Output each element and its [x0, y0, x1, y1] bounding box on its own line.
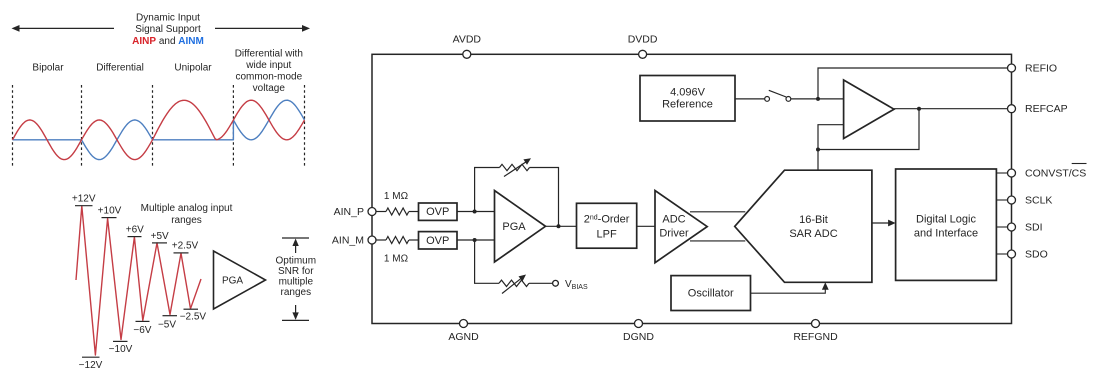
arrow left (dynamic input span): [12, 25, 115, 32]
svg-text:AVDD: AVDD: [453, 34, 482, 46]
label -5V: [158, 320, 176, 331]
label Digital Logic and Interface: [914, 214, 978, 240]
svg-text:Differential with: Differential with: [235, 49, 303, 60]
wire reference node to REFIO: [818, 68, 1008, 99]
junction dot PGA output: [557, 224, 561, 228]
tick -12V: [82, 356, 100, 358]
svg-text:DGND: DGND: [623, 331, 654, 343]
arrow right (dynamic input span): [215, 25, 310, 32]
pin SDI: [1008, 223, 1016, 231]
label 16-Bit SAR ADC: [789, 214, 837, 240]
terminal VBIAS: [553, 280, 559, 286]
block 2nd-Order LPF: [577, 203, 637, 248]
label Optimum SNR for multiple ranges: [276, 256, 317, 299]
switch lever: [769, 90, 786, 97]
svg-text:OVP: OVP: [426, 235, 449, 247]
junction dot AIN_P node: [473, 210, 477, 214]
block OVP (AIN_P): [419, 203, 458, 220]
svg-text:voltage: voltage: [253, 83, 286, 94]
pin AIN_M: [368, 236, 376, 244]
wire VBIAS down from AIN_M node: [475, 240, 499, 283]
svg-text:REFCAP: REFCAP: [1025, 103, 1068, 115]
wire to VBIAS terminal: [529, 282, 553, 284]
svg-text:multiple: multiple: [279, 277, 314, 288]
svg-text:+5V: +5V: [151, 231, 169, 242]
tick -6V: [136, 320, 150, 322]
block 16-Bit SAR ADC: [735, 170, 872, 282]
svg-text:2nd-Order: 2nd-Order: [584, 214, 630, 226]
wire AIN_M to resistor: [376, 239, 386, 241]
wire resistor to OVP (AIN_M): [409, 239, 419, 241]
wire buffer output to REFCAP: [894, 108, 1008, 110]
wire OVP to PGA (AIN_P): [457, 211, 495, 213]
wire feedback node to SAR ADC: [817, 150, 819, 171]
tick -10V: [113, 340, 128, 342]
waveform AINM (blue): [13, 100, 305, 159]
svg-text:−12V: −12V: [79, 360, 103, 371]
pin SDO: [1008, 250, 1016, 258]
label +10V: [98, 205, 122, 216]
label Unipolar: [174, 62, 212, 73]
svg-text:REFGND: REFGND: [793, 331, 838, 343]
pin DVDD: [639, 50, 647, 58]
svg-text:−2.5V: −2.5V: [180, 312, 207, 323]
junction dot feedback node: [816, 148, 820, 152]
wire reference to switch: [735, 98, 765, 100]
svg-text:OVP: OVP: [426, 206, 449, 218]
dashed divider 4: [232, 85, 234, 168]
pin AVDD: [463, 50, 471, 58]
wire digital logic to SCLK pin: [996, 199, 1007, 201]
arrowhead variable resistor VBIAS: [519, 275, 527, 282]
svg-text:Multiple analog input: Multiple analog input: [141, 203, 233, 214]
optimum SNR bottom bar: [282, 305, 309, 320]
block Oscillator: [671, 276, 751, 311]
arrowhead variable resistor PGA: [523, 158, 531, 165]
label VBIAS: [565, 279, 588, 291]
svg-text:DVDD: DVDD: [628, 34, 658, 46]
label REFGND: [793, 331, 838, 343]
dashed divider 3: [152, 85, 154, 168]
tick +6V: [128, 236, 142, 238]
svg-text:wide input: wide input: [245, 60, 291, 71]
op-amp reference buffer: [844, 80, 894, 139]
wire SAR ADC to digital logic: [872, 222, 890, 224]
block Digital Logic and Interface: [896, 169, 997, 280]
label 2nd-Order LPF: [584, 214, 630, 241]
wire AIN_P to resistor: [376, 211, 386, 213]
label PGA: [502, 221, 526, 233]
tick -5V: [163, 315, 178, 317]
label REFCAP: [1025, 103, 1068, 115]
wire feedback down to PGA output: [530, 168, 559, 227]
svg-text:+2.5V: +2.5V: [172, 241, 199, 252]
wire digital logic to SDI pin: [996, 226, 1007, 228]
label AIN_P: [334, 206, 364, 218]
wire oscillator to SAR ADC: [751, 288, 826, 294]
resistor 1 Mohm (AIN_P): [386, 208, 409, 215]
label DGND: [623, 331, 654, 343]
label Bipolar: [32, 62, 64, 73]
svg-text:SCLK: SCLK: [1025, 195, 1052, 207]
svg-text:Dynamic Input: Dynamic Input: [136, 12, 200, 23]
label +6V: [126, 224, 144, 235]
chip boundary box: [372, 54, 1012, 323]
label SDO: [1025, 249, 1048, 261]
svg-text:Reference: Reference: [662, 98, 713, 110]
svg-text:16-Bit: 16-Bit: [799, 214, 828, 226]
wire LPF to ADC driver: [637, 225, 655, 227]
pin REFIO: [1008, 64, 1016, 72]
label +2.5V: [172, 241, 199, 252]
tick +12V: [75, 205, 93, 207]
label -2.5V: [180, 312, 207, 323]
svg-text:ranges: ranges: [171, 215, 202, 226]
svg-text:1 MΩ: 1 MΩ: [384, 254, 409, 265]
label 1 Mohm (AIN_P): [384, 191, 409, 202]
variable resistor VBIAS: [499, 277, 529, 293]
waveform multiple analog input ranges (red zigzag): [76, 206, 201, 355]
switch contact left: [765, 97, 770, 102]
svg-text:−5V: −5V: [158, 320, 176, 331]
svg-text:+6V: +6V: [126, 224, 144, 235]
svg-text:Unipolar: Unipolar: [174, 62, 212, 73]
svg-text:AIN_P: AIN_P: [334, 206, 364, 218]
pin AGND: [460, 320, 468, 328]
pin CONVST/CS: [1008, 169, 1016, 177]
pin REFCAP: [1008, 105, 1016, 113]
tick +2.5V: [174, 252, 189, 254]
label AIN_M: [332, 235, 364, 247]
svg-text:SNR for: SNR for: [278, 266, 314, 277]
svg-text:AIN_M: AIN_M: [332, 235, 364, 247]
dashed divider 2: [81, 85, 83, 168]
dashed divider 5: [304, 85, 306, 168]
junction dot reference node: [816, 97, 820, 101]
svg-text:CONVST/CS: CONVST/CS: [1025, 168, 1086, 180]
label AGND: [448, 331, 479, 343]
svg-text:Bipolar: Bipolar: [32, 62, 64, 73]
junction dot AIN_M node: [473, 238, 477, 242]
op-amp PGA: [495, 191, 546, 263]
wire switch to buffer input: [791, 98, 844, 100]
label ADC Driver: [659, 213, 689, 239]
svg-text:REFIO: REFIO: [1025, 63, 1057, 75]
wire PGA to LPF: [546, 225, 577, 227]
label SDI: [1025, 222, 1043, 234]
label SCLK: [1025, 195, 1052, 207]
label DVDD: [628, 34, 658, 46]
junction dot buffer output: [917, 107, 921, 111]
svg-text:Driver: Driver: [659, 227, 689, 239]
svg-text:Differential: Differential: [96, 62, 144, 73]
variable resistor PGA gain: [500, 161, 530, 177]
svg-text:and Interface: and Interface: [914, 228, 978, 240]
tick +10V: [102, 217, 117, 219]
wire digital logic to SDO pin: [996, 253, 1007, 255]
wire OVP to PGA (AIN_M): [457, 239, 495, 241]
svg-text:4.096V: 4.096V: [670, 86, 706, 98]
waveform AINP (red): [13, 100, 305, 159]
label Oscillator: [688, 288, 734, 300]
op-amp PGA (input ranges): [214, 251, 266, 309]
svg-text:AGND: AGND: [448, 331, 479, 343]
label Multiple analog input ranges: [141, 203, 233, 226]
label -6V: [133, 325, 151, 336]
label Differential: [96, 62, 144, 73]
block 4.096V Reference: [640, 76, 735, 122]
label REFIO: [1025, 63, 1057, 75]
label PGA (input ranges): [222, 276, 243, 287]
svg-text:SAR ADC: SAR ADC: [789, 228, 837, 240]
svg-text:−6V: −6V: [133, 325, 151, 336]
label OVP (AIN_P): [426, 206, 449, 218]
svg-text:PGA: PGA: [502, 221, 526, 233]
block OVP (AIN_M): [419, 232, 458, 249]
svg-text:VBIAS: VBIAS: [565, 279, 588, 291]
label CONVST/CS with overline on CS: [1025, 164, 1087, 180]
pin AIN_P: [368, 208, 376, 216]
label Dynamic Input Signal Support AINP and AINM: [132, 12, 204, 47]
arrowhead into digital logic: [888, 220, 896, 227]
resistor 1 Mohm (AIN_M): [386, 237, 409, 244]
label 4.096V Reference: [662, 86, 713, 110]
svg-text:Digital Logic: Digital Logic: [916, 214, 976, 226]
svg-text:ranges: ranges: [281, 287, 312, 298]
svg-text:1 MΩ: 1 MΩ: [384, 191, 409, 202]
op-amp ADC Driver: [655, 191, 707, 263]
wire buffer feedback: [818, 109, 919, 150]
pin DGND: [635, 320, 643, 328]
label OVP (AIN_M): [426, 235, 449, 247]
label +5V: [151, 231, 169, 242]
dashed divider 1: [12, 85, 14, 168]
svg-text:SDO: SDO: [1025, 249, 1048, 261]
svg-text:common-mode: common-mode: [235, 72, 302, 83]
label -12V: [79, 360, 103, 371]
wire feedback up from AIN_P node: [475, 168, 500, 212]
wire differential pair upper: [690, 211, 745, 213]
pin REFGND: [812, 320, 820, 328]
label AVDD: [453, 34, 482, 46]
label +12V: [72, 193, 96, 204]
tick +5V: [152, 242, 167, 244]
tick -2.5V: [184, 308, 199, 310]
svg-text:+12V: +12V: [72, 193, 96, 204]
label Differential with wide input common-mode voltage: [235, 49, 303, 95]
pin SCLK: [1008, 196, 1016, 204]
svg-text:AINP and AINM: AINP and AINM: [132, 36, 204, 47]
svg-text:SDI: SDI: [1025, 222, 1043, 234]
svg-text:LPF: LPF: [597, 229, 617, 241]
svg-text:Optimum: Optimum: [276, 256, 317, 267]
svg-text:PGA: PGA: [222, 276, 243, 287]
wire digital logic to CONVST pin: [996, 172, 1007, 174]
svg-text:ADC: ADC: [662, 213, 685, 225]
svg-text:+10V: +10V: [98, 205, 122, 216]
label 1 Mohm (AIN_M): [384, 254, 409, 265]
svg-text:−10V: −10V: [109, 344, 133, 355]
wire resistor to OVP (AIN_P): [409, 211, 419, 213]
wire differential pair lower: [690, 240, 745, 242]
label -10V: [109, 344, 133, 355]
svg-text:Oscillator: Oscillator: [688, 288, 734, 300]
arrowhead into SAR ADC bottom: [822, 282, 829, 290]
svg-text:Signal Support: Signal Support: [135, 24, 201, 35]
optimum SNR top bar: [282, 238, 309, 253]
switch contact right: [786, 97, 791, 102]
